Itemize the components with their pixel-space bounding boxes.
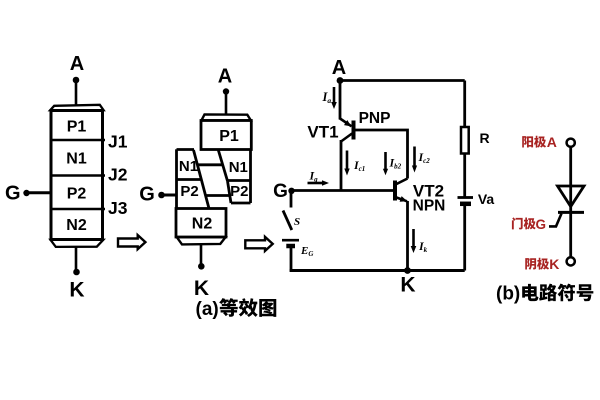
svg-text:J2: J2 xyxy=(108,165,128,185)
svg-text:P2: P2 xyxy=(67,186,87,203)
node A dot xyxy=(337,77,344,84)
svg-text:G: G xyxy=(273,181,288,202)
label gate 门极G xyxy=(512,217,536,229)
anode battery Va long plate xyxy=(458,196,474,199)
svg-text:Ia: Ia xyxy=(322,90,332,105)
right P2 bottom edge xyxy=(231,202,251,205)
J2 boundary right segment xyxy=(228,179,251,182)
load branch wire lower xyxy=(463,206,466,271)
top wire A to load branch xyxy=(340,79,465,82)
gate dot (left structure) xyxy=(23,190,29,196)
current Ig arrow xyxy=(308,182,324,185)
transistor VT2 emitter xyxy=(397,198,408,202)
svg-text:N1: N1 xyxy=(66,151,87,168)
label cathode 阴极K xyxy=(525,258,549,270)
current Ic2 arrow xyxy=(413,147,416,167)
svg-text:N2: N2 xyxy=(66,217,87,234)
svg-text:P1: P1 xyxy=(219,128,239,145)
cathode dot (left structure) xyxy=(73,269,80,276)
current Ic1 arrow xyxy=(346,151,349,170)
junction J2 line xyxy=(51,174,105,177)
svg-text:Ik: Ik xyxy=(418,239,428,254)
svg-text:P2: P2 xyxy=(180,183,198,200)
cathode dot (middle structure) xyxy=(198,263,205,270)
svg-text:NPN: NPN xyxy=(413,198,446,215)
label anode 阳极A xyxy=(522,136,546,148)
J2 boundary crossing band xyxy=(197,163,222,166)
load branch wire middle xyxy=(463,154,466,198)
svg-text:G: G xyxy=(5,183,21,205)
gate wire (left structure) xyxy=(27,191,52,194)
right column right edge xyxy=(249,150,252,204)
transistor VT1 (PNP) emitter xyxy=(340,119,352,127)
transistor VT1 base bar xyxy=(352,121,356,140)
anode dot (middle structure) xyxy=(223,88,229,94)
left N1 top edge xyxy=(177,148,195,151)
junction J3 line xyxy=(51,208,105,211)
bottom wire xyxy=(290,269,465,272)
right P2 left slanted edge xyxy=(228,181,232,203)
N2 bottom 3D strip xyxy=(177,237,226,244)
thyristor triangle xyxy=(558,186,585,207)
cathode terminal circle xyxy=(567,257,575,265)
svg-text:(b): (b) xyxy=(496,284,520,305)
svg-text:N1: N1 xyxy=(179,158,198,175)
wire A down to VT1 emitter xyxy=(339,81,342,120)
anode battery Va short plate xyxy=(460,202,471,207)
svg-text:N1: N1 xyxy=(229,159,248,176)
anode terminal circle xyxy=(567,139,575,147)
J2 boundary left segment xyxy=(177,178,201,181)
svg-text:K: K xyxy=(400,274,415,297)
svg-text:Ib2: Ib2 xyxy=(389,156,402,171)
gate wire to VT2 base xyxy=(292,189,396,192)
svg-text:A: A xyxy=(332,57,346,79)
svg-text:P1: P1 xyxy=(67,119,87,136)
load branch wire upper xyxy=(463,81,466,128)
junction J1 line xyxy=(51,139,105,142)
gate dot (middle structure) xyxy=(158,192,165,199)
transistor VT1 collector xyxy=(341,134,352,142)
wire anode to triangle xyxy=(569,147,572,212)
node K dot xyxy=(404,267,411,274)
gate node dot xyxy=(288,188,294,194)
svg-text:K: K xyxy=(194,277,209,300)
gate wire (middle structure) xyxy=(162,194,177,197)
svg-text:A: A xyxy=(218,66,232,88)
svg-text:K: K xyxy=(69,278,84,301)
svg-text:EG: EG xyxy=(300,245,313,258)
N2 box (middle) xyxy=(176,209,226,238)
svg-text:R: R xyxy=(479,130,489,146)
VT1 base wire to VT2 collector xyxy=(355,130,408,179)
cathode bar xyxy=(558,211,584,214)
equivalence hollow arrow 2 xyxy=(245,237,272,251)
VT1 collector wire down xyxy=(340,140,343,191)
switch blade xyxy=(283,211,292,231)
svg-text:K: K xyxy=(549,256,559,272)
diagonal shear line D2 xyxy=(218,150,227,181)
svg-text:Ic2: Ic2 xyxy=(418,150,431,165)
anode wire (middle structure) xyxy=(225,92,228,116)
wire to cathode circle xyxy=(569,212,572,257)
P1 top 3D strip xyxy=(202,114,251,120)
J3 boundary crossing band xyxy=(205,194,230,197)
svg-text:G: G xyxy=(139,184,155,206)
diagonal shear line D1 xyxy=(194,150,210,209)
svg-text:VT1: VT1 xyxy=(307,123,338,142)
VT2 emitter wire down xyxy=(406,201,409,271)
svg-text:G: G xyxy=(536,217,547,232)
anode dot (left structure) xyxy=(73,77,80,84)
svg-text:P2: P2 xyxy=(230,183,248,200)
current Ik arrow xyxy=(412,229,415,247)
load resistor R xyxy=(461,127,469,154)
cathode wire (middle structure) xyxy=(200,244,203,264)
svg-text:Ic1: Ic1 xyxy=(353,158,365,173)
left column left edge xyxy=(175,149,178,208)
box top 3D strip xyxy=(50,105,103,110)
P1 box (middle) xyxy=(201,121,251,150)
transistor VT2 collector xyxy=(397,179,408,185)
equivalence hollow arrow 1 xyxy=(118,235,145,249)
svg-text:(a): (a) xyxy=(196,299,219,320)
box body xyxy=(51,111,103,240)
switch wire from G down xyxy=(290,194,293,208)
gate lead xyxy=(549,214,562,227)
current Ia arrow xyxy=(333,87,336,103)
gate battery short plate xyxy=(286,244,295,249)
cathode wire (left structure) xyxy=(75,247,78,273)
box bottom 3D strip xyxy=(51,240,104,247)
transistor VT2 base bar xyxy=(393,181,397,201)
svg-text:A: A xyxy=(547,134,557,150)
svg-text:J3: J3 xyxy=(108,198,128,218)
gate battery long plate xyxy=(282,239,299,242)
current Ib2 arrow xyxy=(384,152,387,169)
svg-text:J1: J1 xyxy=(108,132,128,152)
anode wire (left structure) xyxy=(75,80,78,106)
svg-text:Ig: Ig xyxy=(309,169,319,184)
svg-text:PNP: PNP xyxy=(359,110,391,127)
wire battery to bottom xyxy=(290,248,293,272)
svg-text:Va: Va xyxy=(478,191,495,207)
svg-text:N2: N2 xyxy=(192,216,213,233)
svg-text:A: A xyxy=(70,53,84,75)
svg-text:S: S xyxy=(294,216,300,228)
